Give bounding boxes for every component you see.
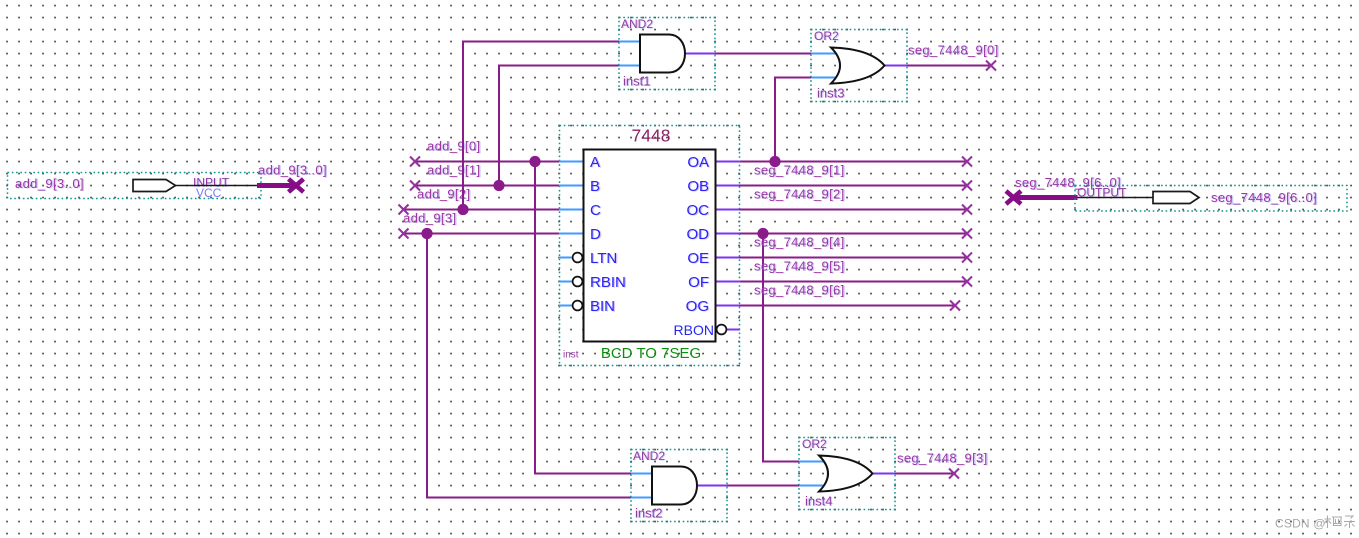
pin stub D: [559, 233, 584, 235]
wire inst3 output seg_7448_9[0]: [907, 65, 991, 67]
X marker add_9[2]: [399, 205, 409, 215]
svg-text:D: D: [590, 226, 601, 243]
svg-text:inst3: inst3: [817, 86, 844, 101]
svg-text:seg_7448_9[0]: seg_7448_9[0]: [908, 43, 999, 58]
svg-text:add_9[3]: add_9[3]: [403, 211, 456, 226]
pin stub LTN: [559, 257, 572, 259]
svg-text:LTN: LTN: [590, 250, 617, 267]
wire add_9[0] to inst2 upper input: [535, 162, 631, 474]
wire OG seg_7448_9[6]: [739, 305, 955, 307]
X marker add_9[0]: [410, 157, 420, 167]
wire inst2 output to inst4 lower input: [727, 485, 799, 487]
wire OF seg_7448_9[5]: [739, 281, 967, 283]
svg-text:add_9[3..0]: add_9[3..0]: [15, 176, 84, 191]
svg-text:OE: OE: [687, 250, 709, 267]
bubble RBON: [717, 325, 727, 335]
junction on OA: [769, 156, 780, 167]
svg-text:inst: inst: [563, 350, 579, 361]
svg-text:OF: OF: [688, 274, 709, 291]
wire OE seg_7448_9[4]: [739, 257, 967, 259]
svg-text:C: C: [590, 202, 601, 219]
wire OA to inst3 lower input: [775, 78, 811, 162]
pin stub BIN: [559, 305, 572, 307]
svg-text:VCC: VCC: [196, 186, 222, 200]
X marker seg_7448_9[0]: [986, 61, 996, 71]
svg-text:inst1: inst1: [623, 74, 650, 89]
wire add_9[1]: [415, 185, 559, 187]
bus stub from input: [257, 183, 296, 188]
pin stub C: [559, 209, 584, 211]
pin stub OA..OG: [716, 161, 740, 163]
X marker add_9[3]: [399, 229, 409, 239]
svg-text:OB: OB: [687, 178, 709, 195]
wire OD to inst4 upper input: [763, 234, 799, 462]
svg-text:OR2: OR2: [814, 29, 839, 43]
wire add_9[3]: [404, 233, 560, 235]
output bus: [1014, 195, 1078, 200]
X marker seg_7448_9[3]: [949, 469, 959, 479]
svg-text:BIN: BIN: [590, 298, 615, 315]
wire OB seg_7448_9[1]: [739, 185, 967, 187]
svg-text:CSDN @: CSDN @: [1275, 517, 1326, 531]
watermark glyph qi: [1325, 516, 1343, 529]
bubble RBIN: [573, 277, 583, 287]
pin stub RBIN: [559, 281, 572, 283]
wire add_9[2] to inst1 upper input: [463, 42, 619, 210]
watermark glyph le: [1344, 516, 1355, 528]
svg-text:seg_7448_9[3]: seg_7448_9[3]: [897, 451, 988, 466]
svg-text:add_9[1]: add_9[1]: [427, 163, 480, 178]
pin stub RBON: [727, 329, 739, 331]
svg-text:AND2: AND2: [621, 17, 653, 31]
svg-text:RBIN: RBIN: [590, 274, 626, 291]
wire add_9[1] to inst1 lower input: [499, 66, 619, 186]
junction on add_9[2]: [457, 204, 468, 215]
svg-text:seg_7448_9[6]: seg_7448_9[6]: [754, 283, 845, 298]
svg-text:OA: OA: [687, 154, 709, 171]
svg-text:RBON: RBON: [674, 322, 714, 338]
junction on OD: [757, 228, 768, 239]
and-gate AND2 inst2: [631, 449, 727, 522]
junction on add_9[3]: [421, 228, 432, 239]
svg-text:OC: OC: [687, 202, 710, 219]
svg-text:add_9[0]: add_9[0]: [427, 139, 480, 154]
svg-text:seg_7448_9[2]: seg_7448_9[2]: [754, 187, 845, 202]
junction on add_9[1]: [493, 180, 504, 191]
pin stub B: [559, 185, 584, 187]
X marker OA wire: [962, 157, 972, 167]
and-gate AND2 inst1: [619, 17, 715, 90]
junction on add_9[0]: [529, 156, 540, 167]
or-gate OR2 inst4: [799, 437, 895, 510]
input connector add_9[3..0]: [8, 173, 262, 201]
wire add_9[2]: [404, 209, 560, 211]
output connector seg_7448_9[6..0]: [1075, 186, 1347, 212]
svg-text:OR2: OR2: [802, 437, 827, 451]
svg-text:OG: OG: [686, 298, 709, 315]
bus dangling X at input: [289, 179, 304, 192]
svg-text:B: B: [590, 178, 600, 195]
wire OA: [739, 161, 967, 163]
svg-text:A: A: [590, 154, 600, 171]
svg-text:add_9[3..0]: add_9[3..0]: [258, 163, 327, 178]
svg-text:seg_7448_9[4]: seg_7448_9[4]: [754, 235, 845, 250]
svg-text:inst4: inst4: [805, 494, 832, 509]
svg-text:seg_7448_9[5]: seg_7448_9[5]: [754, 259, 845, 274]
X marker add_9[1]: [410, 181, 420, 191]
svg-text:OD: OD: [687, 226, 710, 243]
svg-text:BCD TO 7SEG: BCD TO 7SEG: [601, 345, 701, 362]
7448 symbol inst: [559, 126, 740, 366]
wire add_9[0]: [415, 161, 559, 163]
svg-text:seg_7448_9[1]: seg_7448_9[1]: [754, 163, 845, 178]
wire OC seg_7448_9[2]: [739, 209, 967, 211]
svg-text:seg_7448_9[6..0]: seg_7448_9[6..0]: [1211, 190, 1317, 205]
wire inst4 output seg_7448_9[3]: [895, 473, 954, 475]
output bus big X: [1006, 191, 1021, 204]
svg-text:7448: 7448: [632, 126, 671, 146]
wire OD: [739, 233, 967, 235]
chip body: [584, 150, 716, 342]
bubble BIN: [573, 301, 583, 311]
bubble LTN: [573, 253, 583, 263]
or-gate OR2 inst3: [811, 29, 907, 102]
svg-text:inst2: inst2: [635, 506, 662, 521]
svg-text:AND2: AND2: [633, 449, 665, 463]
pin stub A: [559, 161, 584, 163]
wire add_9[3] to inst2 lower input: [427, 234, 631, 498]
wire inst1 output to inst3 upper input: [715, 53, 811, 55]
